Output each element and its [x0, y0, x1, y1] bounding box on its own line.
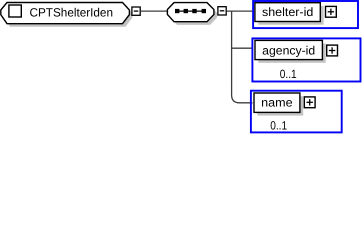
element CPTShelterIden box [1, 3, 130, 24]
svg-text:CPTShelterIden: CPTShelterIden [30, 5, 114, 19]
wire: sequence to shelter-id [227, 10, 253, 12]
expand plus box on shelter-id [326, 6, 337, 17]
svg-text:name: name [261, 96, 293, 110]
element shelter-id box [255, 3, 320, 22]
expand plus box on agency-id [327, 45, 338, 56]
expand minus box on sequence [218, 7, 226, 15]
wire: trunk vertical with bottom elbow to name [232, 11, 253, 103]
svg-text:shelter-id: shelter-id [262, 5, 313, 19]
expand minus box on CPTShelterIden [132, 7, 140, 15]
sequence compositor shadow [170, 6, 217, 25]
link frame name [251, 91, 342, 133]
svg-text:0..1: 0..1 [270, 119, 287, 133]
element agency-id box [255, 40, 322, 59]
element agency-id shadow [258, 44, 325, 63]
sequence compositor octagon [167, 3, 214, 22]
wire: CPTShelterIden to sequence [141, 10, 168, 12]
svg-text:agency-id: agency-id [262, 44, 315, 58]
sequence dots icon [175, 9, 206, 13]
icon element-content square [9, 5, 21, 17]
svg-text:0..1: 0..1 [280, 67, 297, 81]
element shelter-id shadow [258, 6, 323, 25]
element name box [254, 93, 300, 112]
link frame agency-id [252, 38, 360, 81]
link frame shelter-id [253, 1, 358, 28]
element name shadow [257, 96, 303, 115]
wire: branch to agency-id [232, 47, 253, 49]
element CPTShelterIden shadow [4, 6, 133, 27]
expand plus box on name [304, 97, 315, 108]
